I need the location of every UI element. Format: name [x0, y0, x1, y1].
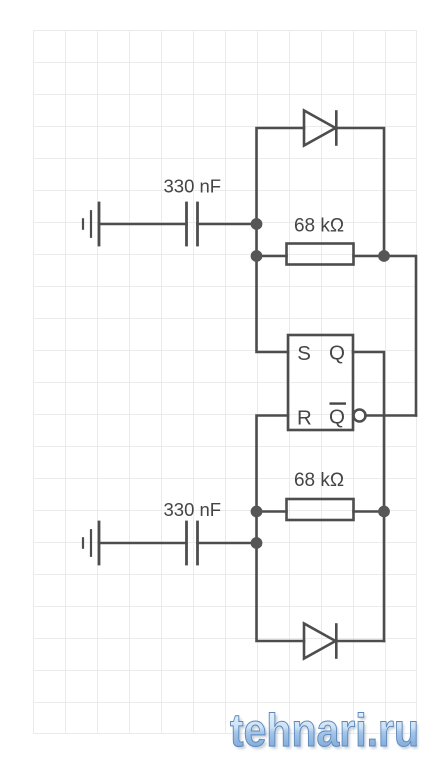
diode D2 (bottom) [304, 624, 336, 659]
junction: R2 left / left rail [251, 506, 263, 518]
value label 68 kOhm (R2) [294, 470, 344, 491]
diode D1 (top) [304, 111, 336, 146]
svg-text:68 kΩ: 68 kΩ [294, 216, 344, 237]
input terminal (bottom source symbol) [83, 522, 99, 564]
wire: left rail to R1 [257, 255, 287, 258]
wire: Q output to mid rail, down through R2 junction to D2 right corner [353, 352, 384, 641]
svg-text:S: S [297, 342, 311, 365]
svg-text:68 kΩ: 68 kΩ [294, 470, 344, 491]
inversion bubble on Q-bar output [354, 410, 366, 422]
grid (decorative) [33, 30, 417, 734]
svg-text:Q: Q [329, 342, 345, 365]
junction: C2 / left rail [251, 537, 263, 549]
svg-text:R: R [297, 407, 312, 430]
svg-text:330 nF: 330 nF [164, 176, 222, 197]
value label 330 nF (C1) [164, 176, 222, 197]
wire: R1 right junction to far-right rail, down to Q-bar row [384, 256, 416, 416]
wire: R input, down the left rail past R2/C2 junctions to D2 left corner [257, 416, 305, 642]
wire: R2 to mid-rail junction [354, 510, 385, 513]
value label 68 kOhm (R1) [294, 216, 344, 237]
junction: R2 right / mid rail [378, 506, 390, 518]
svg-text:tehnari.ru: tehnari.ru [230, 704, 419, 756]
pin label Q [329, 342, 345, 365]
wire: R1 to right junction [354, 255, 385, 258]
junction: R1 right / D1 rail [378, 250, 390, 262]
wire: bottom terminal to C2 [99, 542, 187, 545]
wire: D2 cathode to right corner [336, 640, 384, 643]
pin label S [297, 342, 311, 365]
wire: top-left rail (diode loop left corner, down past C1/R1 junctions, to S input) [257, 128, 305, 352]
capacitor C2 330 nF [187, 522, 198, 564]
svg-text:330 nF: 330 nF [164, 499, 222, 520]
wire: terminal to C1 [99, 223, 187, 226]
junction: C1 / left rail [251, 218, 263, 230]
wire: D1 cathode to right corner, down to R1 right junction [336, 128, 384, 256]
value label 330 nF (C2) [164, 499, 222, 520]
SR latch U1 body [288, 335, 353, 430]
wire: C2 to left rail junction [198, 542, 257, 545]
resistor R1 68 kOhm [287, 244, 354, 265]
resistor R2 68 kOhm [287, 499, 354, 520]
input terminal (top source symbol) [83, 203, 99, 245]
pin label Q-bar [329, 404, 346, 429]
pin label R [297, 407, 312, 430]
svg-text:Q: Q [329, 406, 345, 429]
wire: left rail to R2 [257, 510, 287, 513]
watermark tehnari.ru [230, 704, 421, 759]
wire: Q-bar bubble to far-right rail [366, 414, 417, 417]
capacitor C1 330 nF [187, 203, 198, 245]
wire: C1 to left rail junction [198, 223, 257, 226]
junction: R1 left / left rail [251, 250, 263, 262]
